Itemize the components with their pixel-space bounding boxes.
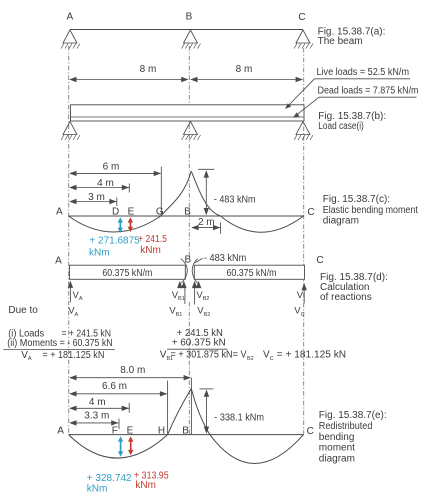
svg-text:kNm: kNm xyxy=(140,245,161,256)
svg-text:+ 60.375 kN: + 60.375 kN xyxy=(172,338,226,349)
svg-text:C: C xyxy=(298,12,305,23)
svg-text:+ 328.742: + 328.742 xyxy=(87,473,132,484)
svg-text:60.375 kN/m: 60.375 kN/m xyxy=(227,268,277,279)
svg-text:of reactions: of reactions xyxy=(320,292,372,303)
svg-text:60.375 kN/m: 60.375 kN/m xyxy=(102,268,152,279)
svg-text:A: A xyxy=(66,12,73,23)
svg-text:diagram: diagram xyxy=(319,454,355,465)
svg-text:A: A xyxy=(57,425,64,436)
svg-text:The beam: The beam xyxy=(318,36,363,47)
svg-text:6.6 m: 6.6 m xyxy=(102,381,127,392)
svg-text:B: B xyxy=(186,12,193,23)
svg-text:Dead loads = 7.875 kN/m: Dead loads = 7.875 kN/m xyxy=(318,86,419,97)
svg-text:Due to: Due to xyxy=(8,305,38,316)
svg-text:diagram: diagram xyxy=(323,216,359,227)
svg-text:Live loads = 52.5 kN/m: Live loads = 52.5 kN/m xyxy=(317,67,410,78)
svg-text:= - 60.375 kN: = - 60.375 kN xyxy=(60,338,113,349)
svg-text:kNm: kNm xyxy=(135,480,156,491)
svg-text:C: C xyxy=(307,426,314,437)
svg-text:6 m: 6 m xyxy=(103,161,120,172)
svg-text:(ii) Moments: (ii) Moments xyxy=(7,338,57,349)
svg-text:Load case(i): Load case(i) xyxy=(318,121,364,132)
svg-text:2 m: 2 m xyxy=(198,217,215,228)
svg-text:Elastic bending moment: Elastic bending moment xyxy=(323,205,418,216)
svg-text:- 483 kNm: - 483 kNm xyxy=(214,195,256,206)
svg-text:kNm: kNm xyxy=(87,484,108,495)
svg-text:- 483 kNm: - 483 kNm xyxy=(204,253,246,264)
svg-text:V: V xyxy=(297,290,304,301)
svg-text:Fig. 15.38.7(c):: Fig. 15.38.7(c): xyxy=(323,194,390,205)
svg-text:8.0 m: 8.0 m xyxy=(120,365,145,376)
svg-text:kNm: kNm xyxy=(89,248,110,259)
svg-text:A: A xyxy=(55,256,62,267)
svg-text:8 m: 8 m xyxy=(140,64,157,75)
svg-text:- 338.1 kNm: - 338.1 kNm xyxy=(214,412,264,423)
svg-text:8 m: 8 m xyxy=(236,64,253,75)
svg-text:= + 181.125 kN: = + 181.125 kN xyxy=(277,350,346,361)
svg-text:4 m: 4 m xyxy=(89,397,106,408)
svg-text:A: A xyxy=(56,207,63,218)
svg-text:moment: moment xyxy=(319,443,355,454)
svg-text:= + 301.875 kN= V: = + 301.875 kN= V xyxy=(171,350,247,361)
svg-text:B2: B2 xyxy=(247,356,254,362)
svg-text:Redistributed: Redistributed xyxy=(319,421,373,432)
svg-text:C: C xyxy=(316,255,323,266)
svg-text:Fig. 15.38.7(e):: Fig. 15.38.7(e): xyxy=(319,410,387,421)
svg-text:3.3 m: 3.3 m xyxy=(84,410,109,421)
svg-text:= + 181.125 kN: = + 181.125 kN xyxy=(42,350,104,361)
svg-text:bending: bending xyxy=(319,432,355,443)
svg-text:+ 271.6875: + 271.6875 xyxy=(89,236,140,247)
svg-text:+ 241.5: + 241.5 xyxy=(138,234,167,245)
svg-text:C: C xyxy=(307,207,314,218)
